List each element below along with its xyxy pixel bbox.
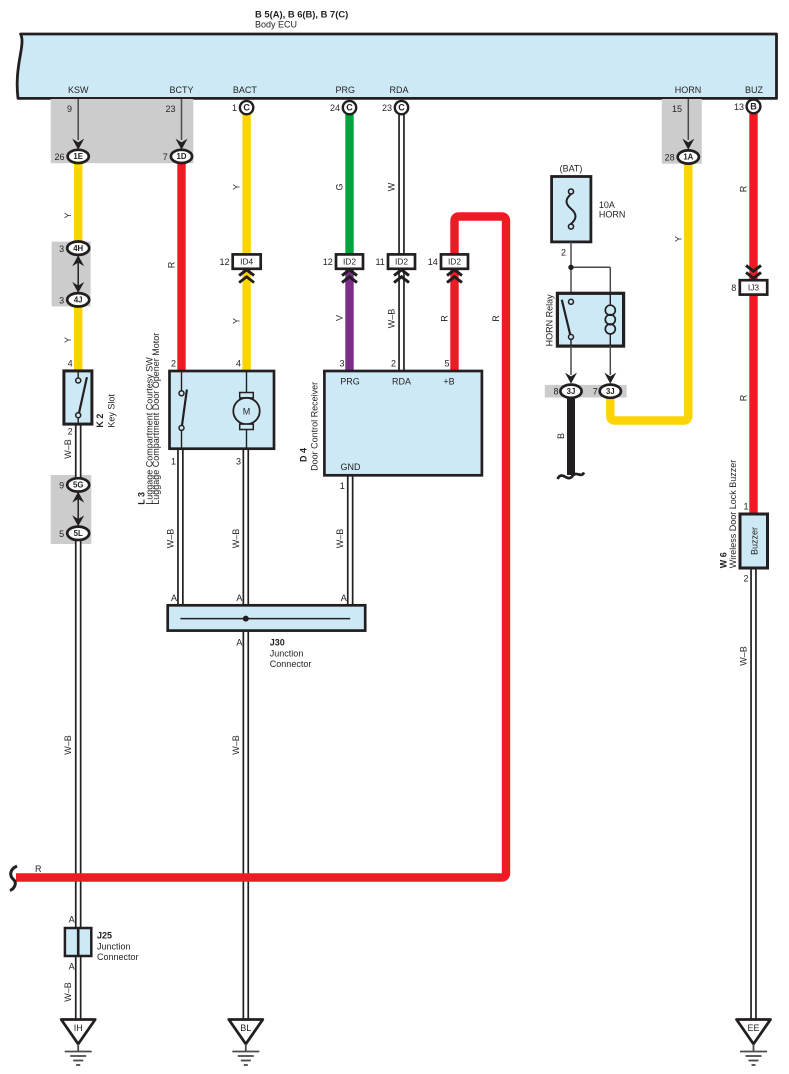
pin number 4 (L3 motor): [236, 359, 241, 369]
label L3: [136, 333, 161, 505]
svg-text:14: 14: [428, 257, 438, 267]
wire KSW pin stub: [72, 99, 84, 150]
pin number 11 (ID2): [375, 257, 384, 267]
label fuse: [560, 164, 626, 220]
circle terminal C (BACT): [240, 101, 253, 114]
junction connector J25: [65, 928, 91, 956]
node A (J30 right): [341, 593, 347, 603]
wire Y HORN to horn relay 3J: [610, 163, 688, 421]
svg-text:V: V: [335, 315, 345, 321]
svg-text:9: 9: [59, 481, 64, 491]
svg-text:R: R: [739, 185, 749, 192]
svg-text:IH: IH: [74, 1023, 83, 1033]
svg-text:9: 9: [67, 104, 72, 114]
svg-text:B: B: [750, 101, 757, 111]
svg-text:Luggage Compartment Door Opene: Luggage Compartment Door Opener Motor: [151, 333, 161, 505]
svg-text:23: 23: [382, 103, 392, 113]
svg-text:1: 1: [171, 457, 176, 467]
wire B to horn: [558, 398, 585, 479]
svg-text:Y: Y: [63, 212, 73, 218]
svg-text:ID2: ID2: [343, 257, 356, 267]
pin number 1 (L3 bottom): [171, 457, 176, 467]
svg-text:W–B: W–B: [63, 735, 73, 755]
node A (J25 below): [69, 962, 75, 972]
wire label R (BUZ lower): [739, 394, 749, 401]
pin number 28 (1A): [665, 153, 675, 163]
svg-text:1: 1: [340, 481, 345, 491]
svg-text:2: 2: [743, 574, 748, 584]
svg-text:BCTY: BCTY: [169, 85, 193, 95]
svg-text:2: 2: [171, 359, 176, 369]
svg-text:A: A: [341, 593, 347, 603]
svg-text:W–B: W–B: [335, 529, 345, 549]
svg-text:B: B: [556, 433, 566, 439]
junction connector J30: [168, 605, 366, 630]
pin number 4 (K2 top): [68, 359, 73, 369]
wire label W-B (K2 long): [63, 735, 73, 755]
pin number 26 (1E): [54, 152, 64, 162]
pin number 12 (ID4): [219, 257, 229, 267]
svg-text:+B: +B: [443, 376, 454, 386]
svg-text:EE: EE: [747, 1023, 759, 1033]
svg-text:HORN: HORN: [599, 210, 626, 220]
svg-text:R: R: [491, 315, 501, 322]
oval 1D: [171, 150, 192, 163]
wire R BUZ to buzzer: [749, 112, 757, 514]
wire label W-B (L3 pin1): [165, 529, 175, 549]
pin number 2 (W6): [743, 574, 748, 584]
circle terminal C (PRG): [343, 101, 356, 114]
pin number 24 (PRG): [330, 103, 340, 113]
svg-text:5G: 5G: [73, 481, 83, 490]
svg-text:W 6: W 6: [718, 552, 728, 568]
wire label W-B (K2 below): [63, 439, 73, 459]
svg-text:7: 7: [593, 387, 598, 397]
wire label R (+B): [440, 315, 450, 322]
svg-text:Wireless Door Lock Buzzer: Wireless Door Lock Buzzer: [728, 460, 738, 569]
svg-text:M: M: [243, 406, 251, 416]
wire G PRG: [345, 112, 353, 260]
svg-text:13: 13: [734, 102, 744, 112]
svg-text:BACT: BACT: [233, 85, 258, 95]
svg-text:3J: 3J: [606, 387, 615, 396]
oval 3J (pin 7): [600, 385, 621, 398]
wire break squiggle left end: [10, 866, 17, 891]
svg-text:2: 2: [68, 427, 73, 437]
svg-text:PRG: PRG: [336, 85, 356, 95]
oval 1A: [678, 150, 699, 163]
svg-text:24: 24: [330, 103, 340, 113]
wire W-B K2 to IH ground: [75, 424, 82, 1020]
svg-text:28: 28: [665, 153, 675, 163]
svg-text:HORN Relay: HORN Relay: [544, 294, 554, 347]
svg-text:Y: Y: [674, 236, 684, 242]
connector shade box KSW/BCTY: [51, 99, 194, 163]
svg-text:W–B: W–B: [63, 982, 73, 1002]
svg-text:BL: BL: [240, 1023, 251, 1033]
svg-text:ID2: ID2: [448, 257, 461, 267]
svg-text:C: C: [243, 103, 250, 113]
svg-text:7: 7: [163, 152, 168, 162]
door control receiver D4: [324, 371, 482, 475]
svg-text:K 2: K 2: [95, 414, 105, 428]
wire W-B L3 pin3 through J30 to BL ground: [243, 449, 250, 1020]
wire label W-B (J30 to BL): [231, 735, 241, 755]
svg-text:D 4: D 4: [299, 448, 309, 462]
circle terminal C (RDA): [395, 101, 408, 114]
oval 3J (pin 8): [560, 385, 581, 398]
svg-text:ID4: ID4: [240, 257, 253, 267]
pin number 12 (ID2): [323, 257, 333, 267]
svg-text:4H: 4H: [73, 244, 83, 253]
wire Y BACT to L3: [242, 112, 250, 372]
Body ECU band: [17, 34, 776, 98]
wire label Y (KSW upper): [63, 212, 73, 218]
node A (J30 left): [171, 593, 177, 603]
pin number 8 (IJ3): [731, 283, 736, 293]
svg-text:3J: 3J: [567, 387, 576, 396]
buzzer W6: [740, 514, 768, 568]
svg-text:Body ECU: Body ECU: [255, 20, 297, 30]
svg-text:8: 8: [731, 283, 736, 293]
connector ID2 (pin 12): [336, 254, 363, 282]
svg-text:Y: Y: [232, 318, 242, 324]
svg-text:J30: J30: [270, 637, 285, 647]
svg-text:R: R: [440, 315, 450, 322]
wire label G (PRG): [335, 183, 345, 190]
pin number 5 (D4 +B): [444, 359, 449, 369]
pin number 3 (D4 PRG): [339, 359, 344, 369]
wire BCTY pin stub: [176, 99, 188, 150]
connector shade box HORN: [662, 99, 702, 164]
svg-text:12: 12: [219, 257, 229, 267]
pin number 3 (4H): [59, 244, 64, 254]
pin number 14 (ID2): [428, 257, 438, 267]
connector IJ3 (pin 8): [740, 265, 767, 294]
svg-text:Connector: Connector: [270, 659, 312, 669]
key slot K2: [64, 371, 92, 424]
wires relay to 3J: [565, 346, 616, 384]
wire label V (PRG lower): [335, 315, 345, 321]
svg-text:11: 11: [375, 257, 384, 267]
node A (J30 below): [236, 638, 242, 648]
wire label W-B (W6 below): [739, 646, 749, 666]
pin number 2 (K2 bottom): [68, 427, 73, 437]
svg-text:5: 5: [444, 359, 449, 369]
svg-text:B 5(A), B 6(B), B 7(C): B 5(A), B 6(B), B 7(C): [255, 9, 348, 20]
wire Y KSW to K2: [74, 162, 82, 372]
svg-text:26: 26: [54, 152, 64, 162]
svg-text:W–B: W–B: [387, 309, 397, 329]
svg-text:5L: 5L: [74, 529, 83, 538]
pin number 2 (fuse): [561, 248, 566, 258]
svg-text:(BAT): (BAT): [560, 164, 583, 174]
svg-text:G: G: [335, 183, 345, 190]
svg-text:5: 5: [59, 529, 64, 539]
svg-text:3: 3: [339, 359, 344, 369]
connector shade band 3J: [545, 385, 627, 398]
wire label W-B (RDA lower): [387, 309, 397, 329]
pin number 3 (4J): [59, 295, 64, 305]
svg-text:R: R: [167, 261, 177, 268]
svg-text:1A: 1A: [683, 153, 693, 162]
connector shade box 4H/4J: [52, 242, 91, 307]
svg-text:GND: GND: [341, 462, 362, 472]
node A (J25 above): [69, 915, 75, 925]
connector ID4 (pin 12): [233, 254, 261, 282]
svg-text:C: C: [398, 103, 405, 113]
wire HORN pin stub: [682, 99, 694, 150]
svg-text:W–B: W–B: [231, 529, 241, 549]
pin number 7 (3J): [593, 387, 598, 397]
svg-text:1: 1: [232, 103, 237, 113]
svg-text:A: A: [69, 962, 75, 972]
svg-text:4: 4: [236, 359, 241, 369]
svg-text:1: 1: [743, 502, 748, 512]
pin number 8 (3J): [553, 387, 558, 397]
wire label W-B (D4 GND): [335, 529, 345, 549]
svg-text:C: C: [346, 103, 353, 113]
svg-text:1E: 1E: [73, 152, 83, 161]
svg-text:BUZ: BUZ: [745, 85, 764, 95]
pin number 1 (D4 GND): [340, 481, 345, 491]
svg-text:Y: Y: [63, 337, 73, 343]
wire label R (BUZ upper): [739, 185, 749, 192]
wire label R (BCTY): [167, 261, 177, 268]
connector ID2 (pin 11): [388, 254, 415, 282]
svg-text:HORN: HORN: [675, 85, 702, 95]
svg-text:2: 2: [391, 359, 396, 369]
wire R BCTY to L3: [177, 162, 185, 372]
circle terminal B (BUZ): [747, 100, 761, 114]
pin number 1 (W6): [743, 502, 748, 512]
wire label W-B (L3 pin3): [231, 529, 241, 549]
luggage sw/motor L3: [170, 371, 275, 449]
svg-text:Junction: Junction: [270, 649, 304, 659]
svg-text:RDA: RDA: [389, 85, 408, 95]
ground BL: [229, 1020, 263, 1066]
connector shade box 5G/5L: [51, 475, 92, 544]
svg-text:Buzzer: Buzzer: [749, 527, 759, 555]
svg-text:3: 3: [59, 295, 64, 305]
label J25: [97, 931, 139, 963]
svg-text:J25: J25: [97, 931, 112, 941]
svg-text:Connector: Connector: [97, 952, 139, 962]
label K2: [95, 394, 116, 428]
svg-text:A: A: [236, 638, 242, 648]
connector pair 5G/5L: [67, 478, 89, 540]
ground IH: [61, 1020, 95, 1066]
pin number 3 (L3 bottom): [236, 457, 241, 467]
pin number 15 (HORN): [672, 104, 682, 114]
svg-text:4J: 4J: [74, 296, 83, 305]
pin number 5 (5L): [59, 529, 64, 539]
svg-text:W: W: [387, 182, 397, 191]
pin number 7 (1D): [163, 152, 168, 162]
wire label R (red horizontal): [35, 864, 42, 874]
label horn relay: [544, 294, 554, 347]
svg-text:W–B: W–B: [63, 439, 73, 459]
svg-text:KSW: KSW: [68, 85, 89, 95]
svg-text:PRG: PRG: [340, 376, 360, 386]
svg-text:12: 12: [323, 257, 333, 267]
svg-text:15: 15: [672, 104, 682, 114]
pin number 13 (BUZ): [734, 102, 744, 112]
label W6: [718, 460, 738, 569]
svg-text:3: 3: [236, 457, 241, 467]
wire label W (RDA): [387, 182, 397, 191]
pin number 9 (KSW): [67, 104, 72, 114]
wire label W-B (J25 below): [63, 982, 73, 1002]
pin number 1 (BACT): [232, 103, 237, 113]
label D4: [299, 382, 320, 471]
ground EE: [737, 1020, 771, 1066]
connector pair 4H/4J: [67, 242, 89, 307]
svg-text:2: 2: [561, 248, 566, 258]
connector ID2 (pin 14): [441, 254, 468, 282]
pin number 9 (5G): [59, 481, 64, 491]
svg-text:IJ3: IJ3: [748, 283, 760, 293]
wire label R (long red): [491, 315, 501, 322]
pin number 23 (BCTY): [165, 104, 175, 114]
wire W-B L3 pin1 to J30: [177, 449, 184, 619]
wire R +B long run: [16, 217, 506, 878]
svg-text:4: 4: [68, 359, 73, 369]
svg-text:Door Control Receiver: Door Control Receiver: [310, 382, 320, 471]
horn relay: [557, 293, 623, 346]
wire label B (horn wire): [556, 433, 566, 439]
svg-text:1D: 1D: [177, 152, 187, 161]
svg-text:A: A: [171, 593, 177, 603]
svg-text:A: A: [236, 593, 242, 603]
pin number 2 (L3 sw): [171, 359, 176, 369]
wire label Y (HORN): [674, 236, 684, 242]
svg-text:R: R: [35, 864, 42, 874]
wire W-B buzzer to EE ground: [750, 568, 757, 1020]
wire label Y (BACT upper): [232, 184, 242, 190]
svg-text:8: 8: [553, 387, 558, 397]
wire W RDA (double line): [398, 112, 405, 372]
svg-text:10A: 10A: [599, 200, 615, 210]
svg-text:Key Slot: Key Slot: [106, 394, 116, 428]
svg-text:W–B: W–B: [739, 646, 749, 666]
svg-text:ID2: ID2: [395, 257, 408, 267]
svg-text:Y: Y: [232, 184, 242, 190]
label J30: [270, 637, 312, 669]
svg-text:R: R: [739, 394, 749, 401]
pin number 23 (RDA): [382, 103, 392, 113]
node A (J30 center): [236, 593, 242, 603]
ECU title: [255, 9, 348, 30]
svg-text:W–B: W–B: [165, 529, 175, 549]
svg-text:3: 3: [59, 244, 64, 254]
svg-text:A: A: [69, 915, 75, 925]
svg-text:23: 23: [165, 104, 175, 114]
wire W-B D4 GND to J30: [347, 475, 354, 618]
pin number 2 (D4 RDA): [391, 359, 396, 369]
svg-text:W–B: W–B: [231, 735, 241, 755]
fuse 10A HORN: [552, 177, 591, 242]
wire label Y (KSW lower): [63, 337, 73, 343]
wire label Y (BACT lower): [232, 318, 242, 324]
oval 1E: [68, 150, 89, 163]
wire V PRG to D4: [345, 260, 353, 372]
svg-text:RDA: RDA: [392, 376, 411, 386]
svg-text:Junction: Junction: [97, 942, 131, 952]
wire fuse to relay: [568, 242, 610, 300]
